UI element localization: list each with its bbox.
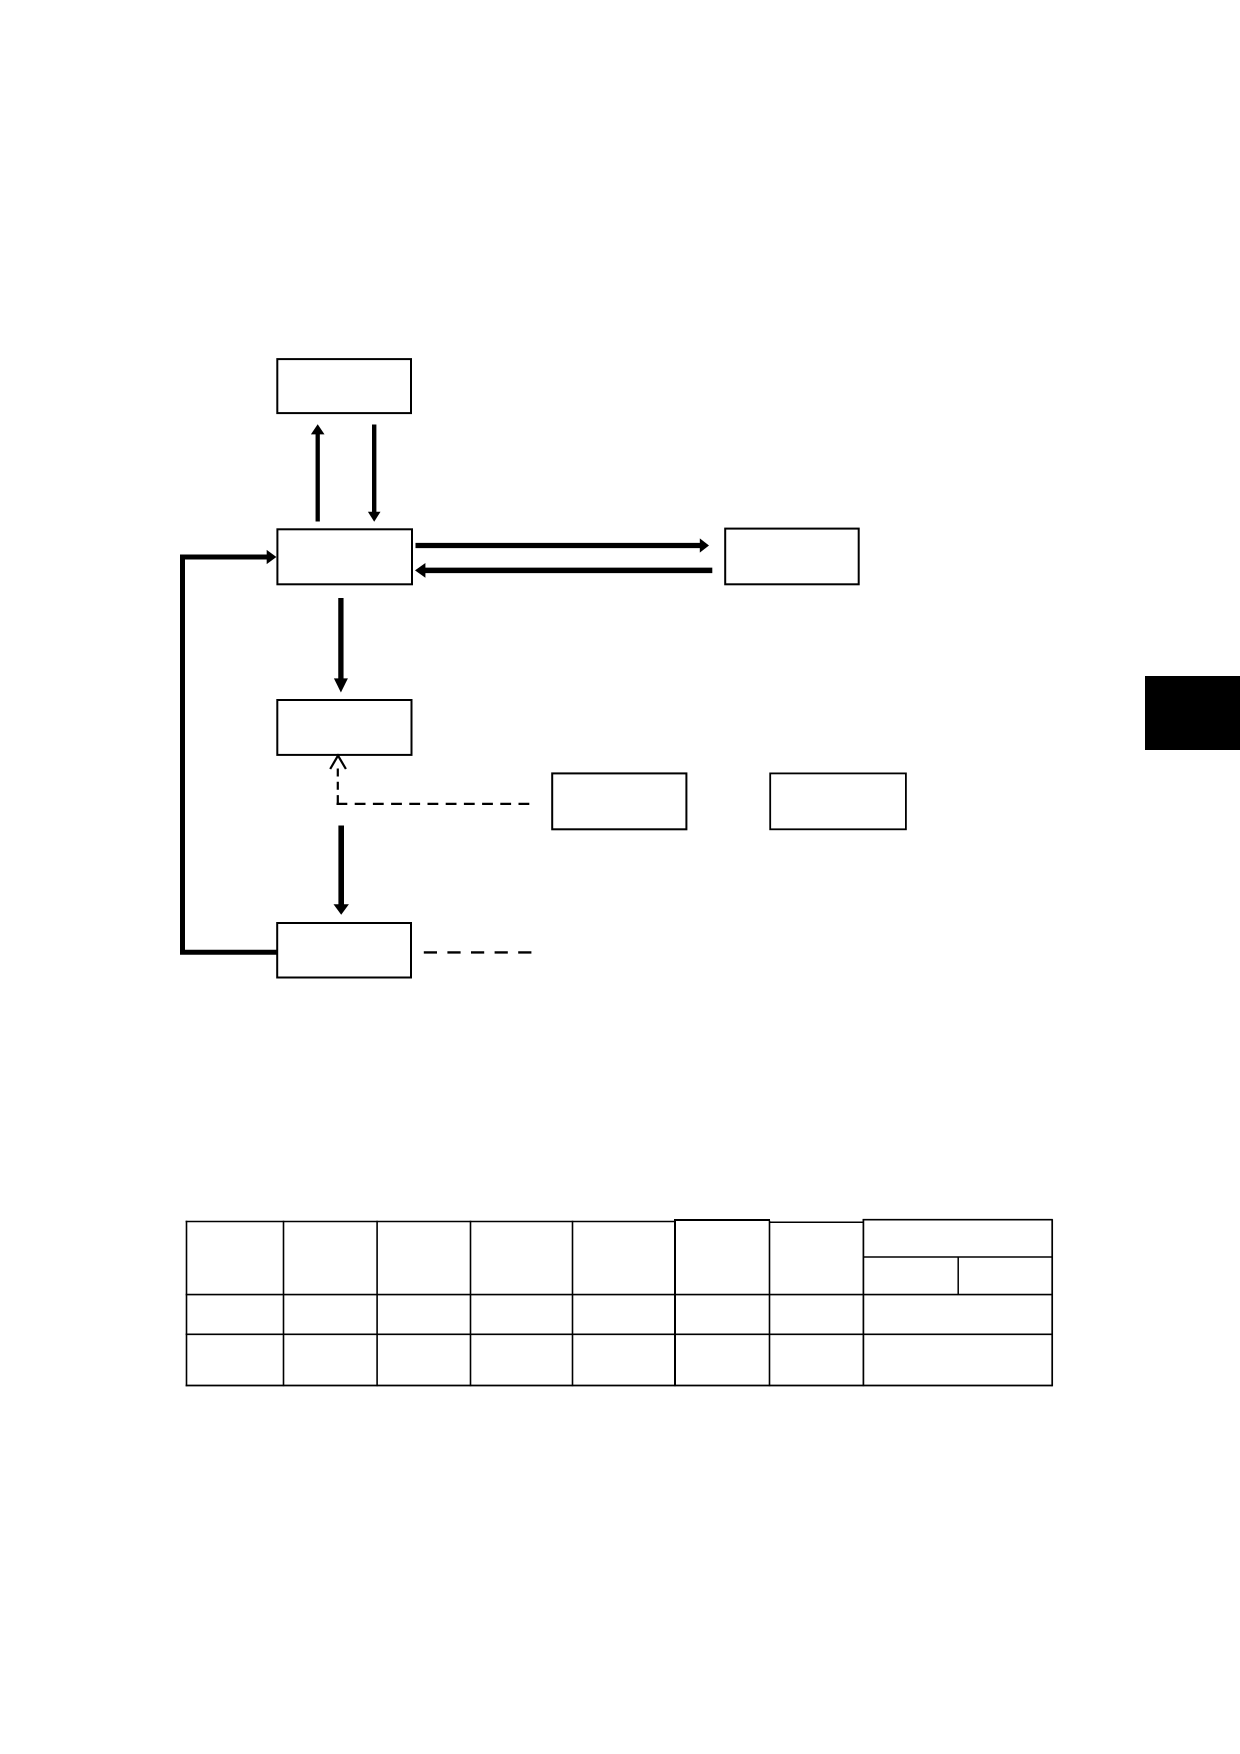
table col-8 sub-header split rule [863,1256,1052,1258]
arrow up B2 to B1 [311,424,325,521]
table top border (cols 1-5) [186,1221,675,1223]
flowchart box B3 (right) [725,529,859,585]
table vertical col7/col8 [862,1219,864,1386]
flowchart box B4 (third level) [277,700,411,755]
table vertical col2/col3 [376,1221,378,1387]
flowchart box B5 (dashed-line target, middle) [552,773,686,829]
table header bottom rule [186,1294,1053,1296]
dashed wire right of B7 [424,951,532,953]
feedback loop wire (left side) [183,557,277,952]
black chapter tab on right page edge [1145,676,1240,750]
table top border (col 7) [769,1221,864,1223]
arrow left B3 to B2 [415,563,712,578]
table vertical col4/col5 [572,1221,574,1387]
table vertical col3/col4 [470,1221,472,1387]
dashed horizontal wire toward B5 [337,803,537,805]
arrow down to B7 [334,826,349,915]
table middle row rule [186,1333,1053,1335]
table top border (col 6) [674,1219,770,1221]
table vertical col6/col7 [769,1221,771,1387]
arrow down B2 to B4 [334,598,348,693]
table vertical col8 sub-split [957,1257,959,1295]
dashed vertical wire below B4 [337,769,339,805]
flowchart box B2 (second level hub) [277,529,412,584]
feedback loop arrowhead into B2 [267,550,277,564]
arrow down B1 to B2 [368,425,381,522]
table vertical right edge [1051,1219,1053,1386]
table vertical col1/col2 [283,1221,285,1387]
dashed open arrowhead into B4 bottom [330,756,346,769]
table vertical col5/col6 [674,1220,676,1387]
table top border (col 8 group header) [863,1219,1053,1221]
flowchart box B7 (bottom) [277,923,411,978]
flowchart box B1 (top) [277,359,411,413]
arrow right B2 to B3 [416,538,710,552]
table bottom border [186,1385,1053,1387]
flowchart box B6 (far right) [770,773,906,829]
table vertical border left edge [186,1221,188,1387]
